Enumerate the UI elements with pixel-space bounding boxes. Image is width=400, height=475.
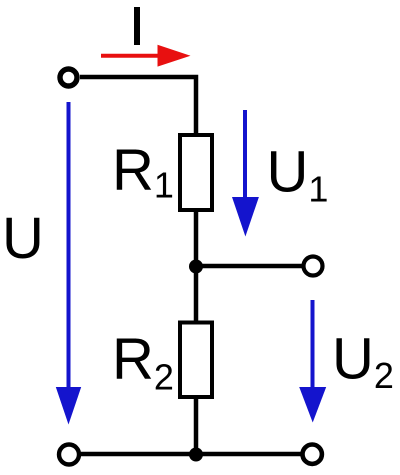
- svg-text:R2: R2: [112, 327, 174, 398]
- svg-text:R1: R1: [112, 138, 174, 206]
- svg-text:U2: U2: [332, 327, 394, 397]
- svg-text:U1: U1: [267, 140, 329, 210]
- svg-text:U: U: [2, 206, 44, 271]
